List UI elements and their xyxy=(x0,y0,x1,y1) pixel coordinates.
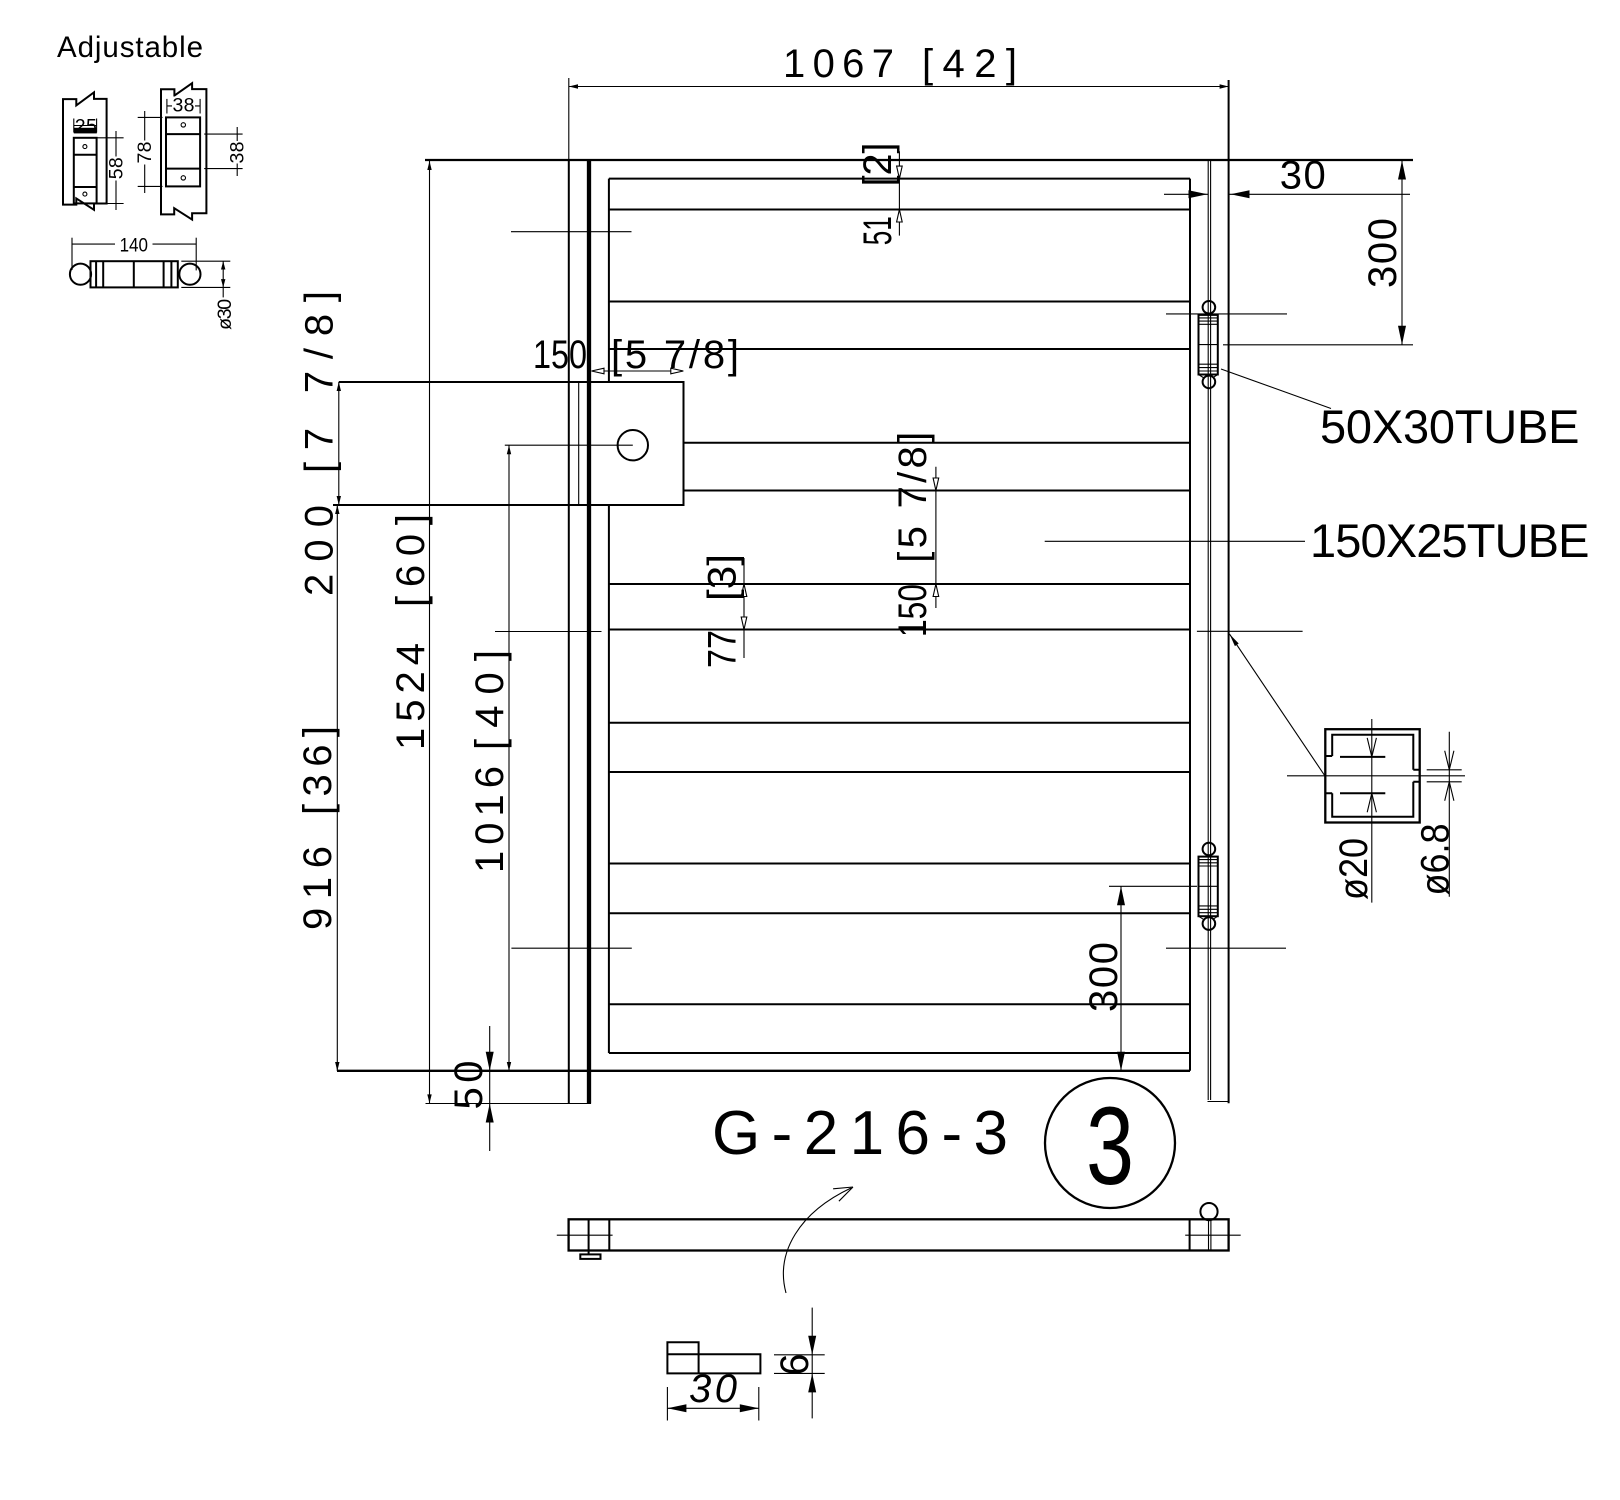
svg-text:200: 200 xyxy=(298,505,342,596)
dimension 30 bracket xyxy=(667,1367,758,1421)
slat 3 top edge xyxy=(684,442,1191,444)
dimension 51 [2] top xyxy=(856,143,902,246)
inner right frame edge xyxy=(1189,179,1191,1071)
rail position mark top left xyxy=(511,231,632,233)
bottom bar left thick line xyxy=(588,1219,590,1254)
bottom bar hinge pin circle xyxy=(1200,1203,1217,1220)
svg-text:38: 38 xyxy=(173,95,195,117)
svg-text:150X25TUBE: 150X25TUBE xyxy=(1310,514,1590,567)
balloon circle xyxy=(1045,1078,1175,1208)
svg-text:[5 7/8]: [5 7/8] xyxy=(611,333,739,377)
svg-text:[3]: [3] xyxy=(701,554,745,601)
dimension 50 bottom left xyxy=(447,1026,494,1151)
hinge post inner double line b xyxy=(1210,160,1212,1100)
dimension diameter 30 barrel xyxy=(181,261,236,330)
svg-text:ø20: ø20 xyxy=(1332,838,1376,900)
svg-text:6: 6 xyxy=(773,1354,817,1376)
hinge post inner double line a xyxy=(1207,160,1209,1100)
bottom bar top view outline xyxy=(569,1219,1229,1250)
inner left frame upper segment xyxy=(608,179,610,382)
dimension 58 small bar xyxy=(97,131,128,210)
slat 6 bottom edge xyxy=(609,912,1190,914)
svg-text:3: 3 xyxy=(1086,1085,1134,1208)
bracket detail outline xyxy=(667,1342,760,1373)
svg-text:ø30: ø30 xyxy=(214,299,236,330)
dimension 300 top right xyxy=(1223,160,1413,345)
inner left frame lower segment xyxy=(608,505,610,1053)
svg-text:78: 78 xyxy=(134,142,156,164)
dimension 150 [5 7/8] top left xyxy=(533,333,739,377)
dimension 6 bracket xyxy=(773,1308,825,1419)
gate bottom rail line xyxy=(337,1070,1190,1072)
rail position mark middle right xyxy=(1197,630,1303,632)
latch box left edge dim line 200 xyxy=(338,382,340,505)
leaf left edge extension line xyxy=(568,78,570,160)
bottom bar hinge double line a xyxy=(1208,1219,1210,1250)
svg-text:[2]: [2] xyxy=(856,143,900,187)
rail position mark top right xyxy=(1166,313,1287,315)
dimension 1016 [40] xyxy=(468,445,512,1071)
left stile thick edge xyxy=(587,160,591,1104)
bottom bar hinge double line b xyxy=(1210,1219,1212,1250)
svg-text:77: 77 xyxy=(701,630,745,668)
slat 2 bottom edge xyxy=(609,348,1190,350)
svg-text:Adjustable: Adjustable xyxy=(57,31,203,64)
rail position mark bottom right xyxy=(1166,947,1286,949)
svg-text:916: 916 xyxy=(296,846,340,930)
slat 5 bottom edge xyxy=(609,771,1190,773)
top hinge xyxy=(1199,301,1218,388)
label 50X30TUBE with leader xyxy=(1221,369,1580,453)
slat 6 top edge xyxy=(609,863,1190,865)
bottom bar left centerline xyxy=(557,1234,613,1236)
left stile bottom cap line xyxy=(426,1103,592,1105)
dimension 38 right large bar xyxy=(204,127,248,176)
svg-text:140: 140 xyxy=(120,235,149,257)
dimension 30 top right xyxy=(1164,154,1410,199)
dimension 300 bottom right xyxy=(1082,886,1197,1071)
dimension 77 [3] xyxy=(701,554,747,668)
latch hole circle xyxy=(618,430,648,460)
leader arrow to square detail xyxy=(1230,634,1326,776)
dimension 916 [36] xyxy=(296,505,340,1071)
latch box outline xyxy=(333,382,684,505)
dimension 78 large bar xyxy=(134,111,163,193)
gate top rail line xyxy=(425,159,1413,161)
dimension 200 [7 7/8] xyxy=(298,291,342,596)
dimension 140 barrel xyxy=(72,235,196,271)
slat 4 top edge xyxy=(609,583,1190,585)
bottom bar right centerline xyxy=(1185,1234,1241,1236)
slat panel bottom edge xyxy=(609,1052,1190,1054)
rail position mark middle left xyxy=(495,631,602,633)
bottom bar latch plate xyxy=(580,1254,600,1259)
svg-text:[5 7/8]: [5 7/8] xyxy=(891,432,935,563)
slat 4 bottom edge xyxy=(609,629,1190,631)
dimension 1067 [42] xyxy=(569,42,1229,89)
dimension 150 [5 7/8] middle xyxy=(891,432,939,637)
svg-text:300: 300 xyxy=(1361,218,1405,288)
slat panel top edge xyxy=(609,178,1190,180)
latch box inner vertical line xyxy=(578,382,580,505)
dimension diameter 20 xyxy=(1332,719,1376,903)
label 150X25TUBE with leader xyxy=(1045,514,1590,567)
hinge post right edge with extension xyxy=(1228,80,1230,1103)
svg-text:50X30TUBE: 50X30TUBE xyxy=(1320,400,1580,453)
svg-text:25: 25 xyxy=(75,116,97,138)
dimension 38 top large bar xyxy=(167,95,200,117)
svg-text:30: 30 xyxy=(1280,154,1326,198)
slat 3 bottom edge xyxy=(684,490,1191,492)
bottom bar right cap line xyxy=(1189,1219,1191,1250)
latch hole center extension line xyxy=(505,444,633,446)
slat 1 bottom edge xyxy=(609,209,1190,211)
svg-text:300: 300 xyxy=(1082,942,1126,1012)
svg-text:ø6.8: ø6.8 xyxy=(1414,824,1458,896)
svg-text:150: 150 xyxy=(533,333,587,377)
slat 2 top edge xyxy=(609,301,1190,303)
svg-text:58: 58 xyxy=(106,157,128,179)
leaf left edge xyxy=(568,160,570,1104)
dimension diameter 6.8 xyxy=(1414,732,1462,897)
bottom hinge xyxy=(1199,843,1218,930)
svg-text:38: 38 xyxy=(227,142,249,164)
swoosh arrow xyxy=(783,1187,853,1293)
rail position mark bottom left xyxy=(511,947,631,949)
dimension 25 small bar xyxy=(74,116,97,138)
slat 5 top edge xyxy=(609,722,1190,724)
svg-text:[7 7/8]: [7 7/8] xyxy=(298,291,342,473)
large hinge bar detail (right) xyxy=(161,83,206,219)
square tube cross-section detail xyxy=(1287,729,1465,822)
small hinge bar detail (left) xyxy=(63,92,107,210)
svg-text:150: 150 xyxy=(891,584,935,637)
svg-text:51: 51 xyxy=(856,216,900,245)
bottom bar left cap inner line xyxy=(608,1219,610,1250)
hinge post bottom cap line xyxy=(1208,1101,1230,1103)
dimension 1524 [60] xyxy=(389,161,433,1103)
hinge barrel detail xyxy=(70,261,201,287)
slat 7 top edge xyxy=(609,1003,1190,1005)
